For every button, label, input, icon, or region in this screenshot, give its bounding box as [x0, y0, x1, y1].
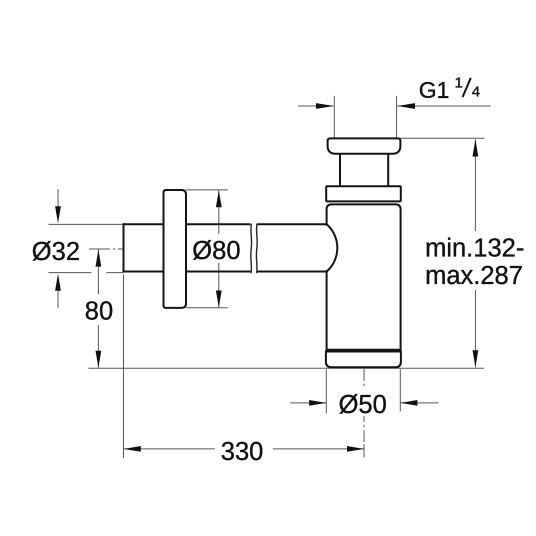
- dimension line O50 left segment: [290, 402, 326, 404]
- text halo O80: [191, 234, 242, 263]
- text halo 80: [83, 294, 114, 325]
- extension line O50 left: [325, 369, 327, 413]
- svg-text:80: 80: [85, 297, 113, 325]
- O32 arrow shaft bottom: [57, 276, 59, 309]
- arrowhead O50 left-pointing: [400, 400, 417, 406]
- label G1 fraction slash: [463, 78, 471, 97]
- extension line 330 right (solid tail of centerline): [363, 444, 365, 457]
- svg-text:max.287: max.287: [425, 262, 523, 290]
- inlet pipe left end cap: [123, 223, 125, 272]
- extension line thread right: [396, 96, 398, 138]
- extension line 330 left: [123, 275, 125, 459]
- arrowhead G1 pointing left: [397, 103, 415, 109]
- inlet pipe top edge segment 3: [257, 223, 327, 225]
- arrowhead G1 pointing right: [316, 103, 334, 109]
- arrowhead min-max down: [473, 350, 479, 367]
- dimension line G1 left segment: [298, 105, 333, 107]
- inlet pipe bottom edge segment 1: [123, 271, 165, 273]
- extension line flange top (O80): [186, 189, 228, 191]
- svg-text:Ø32: Ø32: [32, 238, 80, 266]
- svg-text:Ø50: Ø50: [339, 391, 387, 419]
- dimension line 330 right segment: [273, 448, 364, 450]
- svg-text:G1: G1: [419, 77, 450, 103]
- inlet opening in body (erase left edge): [325, 226, 329, 271]
- neck right edge: [387, 154, 389, 187]
- arrowhead 330 left-pointing: [124, 446, 141, 452]
- inlet boss arc: [327, 224, 338, 271]
- arrowhead 80 down: [96, 351, 102, 368]
- svg-text:1: 1: [455, 74, 463, 91]
- extension line thread left: [333, 96, 335, 138]
- dimension line min-max vertical: [474, 140, 476, 368]
- extension line pipe top (O32): [49, 223, 124, 225]
- dimension line 80 vertical: [97, 250, 99, 368]
- arrowhead 80 up: [96, 250, 102, 267]
- svg-text:330: 330: [221, 438, 264, 466]
- second flange: [326, 186, 401, 201]
- arrowhead 330 right-pointing: [347, 446, 364, 452]
- svg-text:Ø80: Ø80: [192, 237, 240, 265]
- extension line O50 right: [399, 369, 401, 411]
- trap body: [327, 204, 401, 349]
- dimension line O50 right segment: [400, 402, 438, 404]
- extension line pipe bottom (O32) right part: [106, 272, 123, 274]
- pipe break wavy line left: [250, 224, 253, 274]
- arrowhead O80 down: [216, 291, 222, 308]
- extension line flange bottom (O80): [186, 307, 228, 309]
- svg-text:4: 4: [472, 84, 480, 101]
- inlet pipe bottom edge segment 3: [257, 271, 327, 273]
- baseline bottom reference: [88, 367, 484, 369]
- neck left edge: [339, 154, 341, 187]
- reference line top right: [400, 137, 484, 139]
- extension line pipe bottom (O32) left part: [49, 272, 92, 274]
- inlet pipe top edge segment 2: [185, 223, 250, 225]
- dimension line O80 vertical: [218, 190, 220, 307]
- text halo min-max: [424, 231, 525, 290]
- pipe break wavy line right: [255, 224, 258, 274]
- O32 arrow shaft top: [57, 189, 59, 221]
- top flange (nut): [328, 138, 401, 153]
- arrowhead O32 down: [55, 206, 61, 223]
- wall escutcheon flange: [164, 190, 187, 308]
- centerline pipe axis (dash-dot): [89, 248, 124, 250]
- centerline body axis (dash-dot): [363, 369, 365, 444]
- arrowhead O50 right-pointing: [309, 400, 326, 406]
- arrowhead min-max up: [473, 139, 479, 156]
- text halo O50: [336, 389, 386, 416]
- arrowhead O80 up: [216, 190, 222, 207]
- dimension line 330 left segment: [124, 448, 215, 450]
- svg-text:min.132-: min.132-: [425, 235, 524, 263]
- arrowhead O32 up: [55, 274, 61, 291]
- dimension line G1 right segment: [397, 105, 491, 107]
- inlet pipe top edge segment 1: [123, 223, 165, 225]
- inlet pipe bottom edge segment 2: [185, 271, 250, 273]
- bottom cup: [326, 352, 401, 368]
